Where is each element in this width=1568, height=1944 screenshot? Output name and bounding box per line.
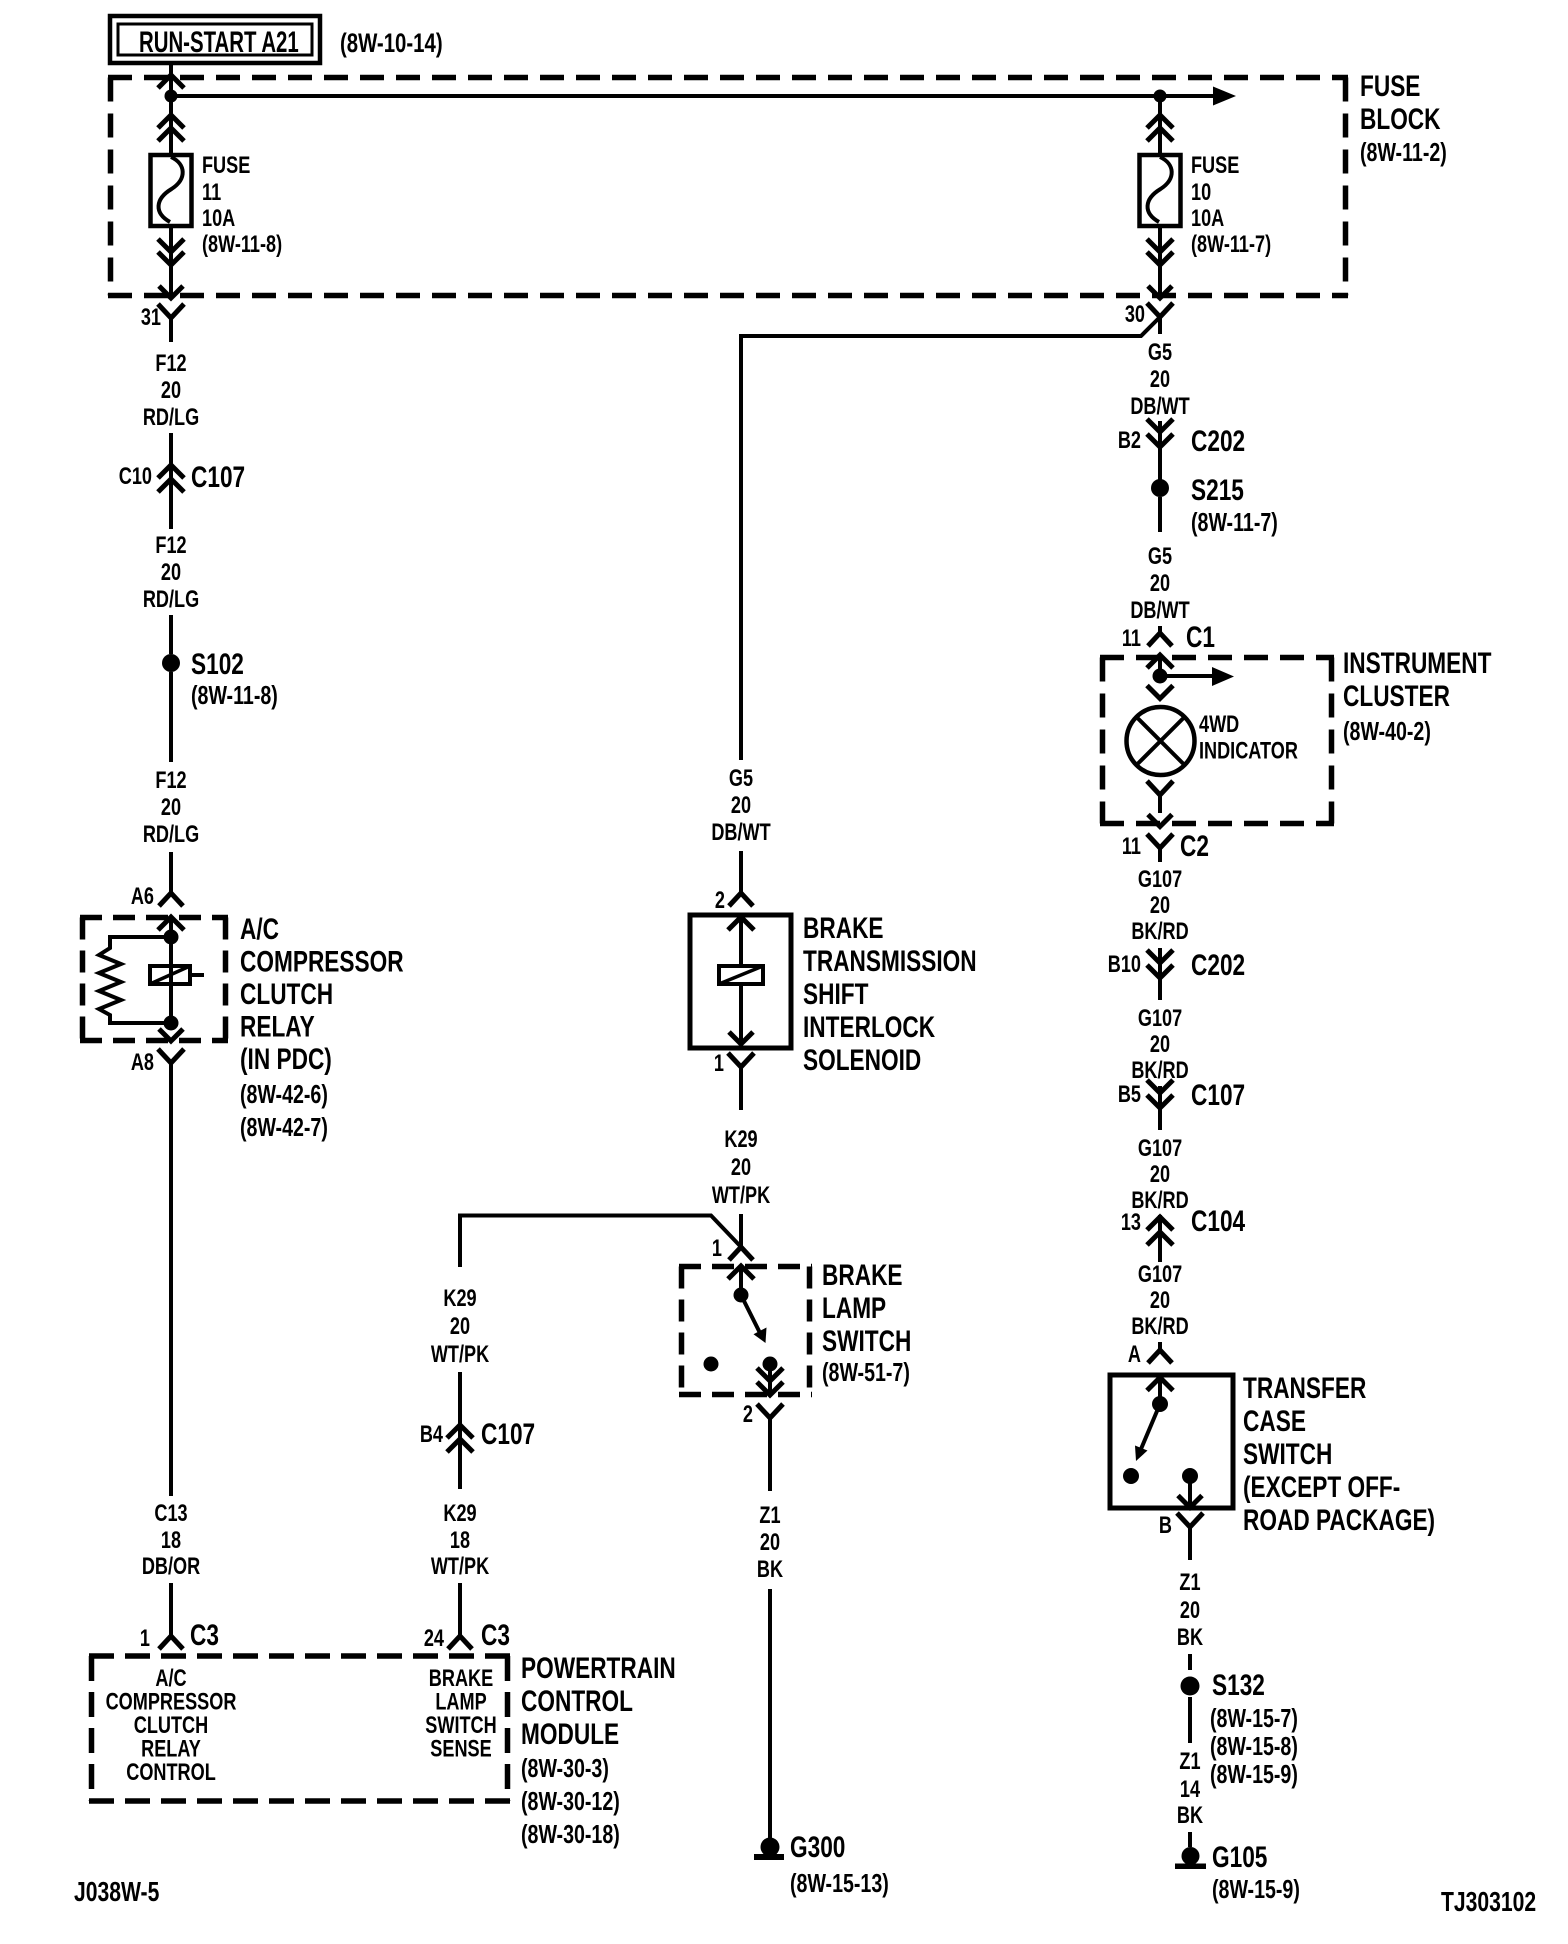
fuse F10 bottom connector [1147, 239, 1173, 252]
svg-text:11: 11 [1122, 625, 1141, 652]
svg-text:(8W-11-7): (8W-11-7) [1191, 507, 1278, 536]
connector C107 pin B4 [447, 1425, 473, 1438]
svg-text:SENSE: SENSE [430, 1735, 491, 1762]
svg-text:20: 20 [760, 1529, 780, 1556]
svg-text:20: 20 [1180, 1597, 1200, 1624]
bus wire from RUN-START A21 [169, 63, 173, 96]
connector C3 pin 1 [159, 1636, 183, 1649]
arrow out of instrument cluster [1148, 815, 1172, 827]
svg-text:WT/PK: WT/PK [431, 1553, 490, 1580]
svg-text:Z1: Z1 [1179, 1569, 1200, 1596]
svg-text:WT/PK: WT/PK [712, 1182, 771, 1209]
svg-text:C10: C10 [119, 463, 152, 490]
svg-text:S102: S102 [191, 647, 244, 681]
arrow out of fuse block [1148, 286, 1172, 298]
switch lever [741, 1295, 760, 1333]
svg-text:FUSE: FUSE [1191, 152, 1239, 179]
svg-text:20: 20 [1150, 1287, 1170, 1314]
svg-text:INTERLOCK: INTERLOCK [803, 1010, 935, 1044]
wire [1158, 948, 1162, 1000]
arrow into relay [158, 917, 184, 930]
svg-text:G107: G107 [1138, 1261, 1182, 1288]
svg-text:(8W-42-6): (8W-42-6) [240, 1079, 328, 1108]
svg-text:C107: C107 [481, 1417, 535, 1451]
ground G300 [761, 1838, 780, 1857]
fuse 10 10A [1140, 155, 1181, 226]
svg-text:Z1: Z1 [1179, 1748, 1200, 1775]
svg-text:B4: B4 [420, 1421, 443, 1448]
svg-text:C107: C107 [191, 460, 245, 494]
connector 30 of fuse block [1147, 303, 1173, 317]
svg-text:(8W-40-2): (8W-40-2) [1343, 716, 1431, 745]
svg-text:SOLENOID: SOLENOID [803, 1043, 921, 1077]
wire [1158, 1086, 1162, 1130]
relay node bottom [164, 1016, 179, 1031]
fuse F11 top connector [158, 115, 184, 128]
svg-text:14: 14 [1180, 1776, 1200, 1803]
connector C3 pin 24 [448, 1636, 472, 1649]
svg-text:WT/PK: WT/PK [431, 1341, 490, 1368]
svg-text:2: 2 [715, 887, 725, 914]
connector C2 pin 11 [1147, 834, 1173, 848]
svg-text:(8W-11-8): (8W-11-8) [191, 680, 278, 709]
svg-text:K29: K29 [724, 1126, 757, 1153]
wire [169, 672, 173, 762]
svg-text:20: 20 [1150, 366, 1170, 393]
svg-text:DB/WT: DB/WT [1130, 393, 1189, 420]
fuse F11 bottom connector [158, 239, 184, 252]
powertrain control module dashed box [89, 1656, 510, 1801]
svg-text:RD/LG: RD/LG [143, 586, 199, 613]
arrow out of brake lamp switch [768, 1364, 772, 1395]
svg-text:TJ303102: TJ303102 [1441, 1887, 1536, 1917]
solenoid coil [719, 966, 763, 984]
wire [169, 226, 173, 298]
wire [1158, 226, 1162, 298]
wire [1188, 1832, 1192, 1847]
svg-text:TRANSFER: TRANSFER [1243, 1371, 1366, 1405]
svg-text:(8W-15-13): (8W-15-13) [790, 1868, 889, 1897]
svg-text:20: 20 [731, 1154, 751, 1181]
svg-text:B2: B2 [1118, 427, 1141, 454]
svg-text:INDICATOR: INDICATOR [1199, 737, 1298, 764]
wire [169, 433, 173, 529]
connector pin A8 [158, 1049, 184, 1063]
svg-text:20: 20 [1150, 570, 1170, 597]
svg-text:G107: G107 [1138, 1135, 1182, 1162]
svg-text:(8W-30-3): (8W-30-3) [521, 1753, 609, 1782]
svg-text:13: 13 [1121, 1209, 1141, 1236]
wire G5 from connector 30 [741, 317, 1160, 760]
svg-text:RD/LG: RD/LG [143, 821, 199, 848]
A/C compressor clutch relay dashed box [80, 918, 228, 1041]
svg-text:18: 18 [450, 1527, 470, 1554]
wire [169, 615, 173, 654]
svg-text:BRAKE: BRAKE [822, 1258, 903, 1292]
svg-text:11: 11 [1122, 833, 1141, 860]
arrow out of relay [159, 1029, 183, 1041]
node splice on bus left [165, 90, 178, 103]
svg-text:K29: K29 [443, 1500, 476, 1527]
wire [169, 852, 173, 893]
svg-text:COMPRESSOR: COMPRESSOR [240, 944, 404, 978]
connector pin 2 [729, 893, 753, 906]
wire [1158, 1215, 1162, 1262]
node in instrument cluster [1153, 669, 1168, 684]
svg-text:B5: B5 [1118, 1081, 1141, 1108]
svg-text:20: 20 [1150, 1161, 1170, 1188]
instrument cluster dashed box [1100, 658, 1334, 824]
transfer case switch box [1110, 1375, 1233, 1508]
svg-text:C107: C107 [1191, 1078, 1245, 1112]
connector C202 pin B10 [1147, 950, 1173, 963]
svg-text:(8W-30-12): (8W-30-12) [521, 1786, 620, 1815]
wire [169, 96, 173, 156]
svg-text:20: 20 [1150, 1031, 1170, 1058]
svg-text:RELAY: RELAY [240, 1009, 315, 1043]
fuse 11 10A [151, 155, 192, 226]
wire [1158, 421, 1162, 484]
svg-text:F12: F12 [155, 767, 186, 794]
svg-text:CONTROL: CONTROL [126, 1759, 216, 1786]
svg-text:S132: S132 [1212, 1668, 1265, 1702]
svg-text:S215: S215 [1191, 473, 1244, 507]
connector inside cluster [1147, 781, 1173, 795]
svg-text:C13: C13 [154, 1500, 187, 1527]
svg-text:G107: G107 [1138, 1005, 1182, 1032]
fuse F10 top connector [1147, 115, 1173, 128]
svg-text:BK: BK [1177, 1802, 1204, 1829]
svg-text:10: 10 [1191, 179, 1211, 206]
wire [768, 1589, 772, 1838]
svg-text:BK: BK [1177, 1624, 1204, 1651]
svg-text:B10: B10 [1108, 951, 1141, 978]
svg-text:C2: C2 [1180, 829, 1209, 863]
connector C107 pin B5 [1147, 1080, 1173, 1093]
svg-text:G5: G5 [729, 765, 753, 792]
svg-text:TRANSMISSION: TRANSMISSION [803, 944, 977, 978]
svg-text:G5: G5 [1148, 543, 1172, 570]
svg-text:18: 18 [161, 1527, 181, 1554]
resistor of relay [99, 937, 171, 1023]
relay node top [164, 930, 179, 945]
svg-text:Z1: Z1 [759, 1502, 780, 1529]
svg-text:BRAKE: BRAKE [803, 911, 884, 945]
wire [1158, 96, 1162, 156]
brake transmission shift interlock solenoid box [690, 915, 791, 1048]
svg-text:11: 11 [202, 179, 221, 206]
switch contact node left [704, 1357, 719, 1372]
fuse block dashed box [108, 78, 1348, 296]
wire [1158, 626, 1162, 633]
switch pole node [1152, 1396, 1168, 1412]
svg-text:F12: F12 [155, 532, 186, 559]
node splice on bus right [1154, 90, 1167, 103]
svg-text:30: 30 [1125, 301, 1145, 328]
svg-text:(8W-10-14): (8W-10-14) [340, 28, 443, 58]
splice S102 [162, 654, 180, 672]
connector arrow into fuse block [158, 75, 184, 88]
svg-text:(8W-15-8): (8W-15-8) [1210, 1731, 1298, 1760]
splice S215 [1151, 479, 1169, 497]
switch contact node left [1123, 1468, 1139, 1484]
svg-text:G107: G107 [1138, 866, 1182, 893]
wire [458, 1372, 462, 1453]
svg-text:G5: G5 [1148, 339, 1172, 366]
wire [1158, 1342, 1162, 1350]
svg-text:(8W-15-9): (8W-15-9) [1212, 1874, 1300, 1903]
svg-text:20: 20 [1150, 892, 1170, 919]
svg-text:(8W-15-7): (8W-15-7) [1210, 1703, 1298, 1732]
ground G105 [1182, 1847, 1200, 1865]
svg-text:(EXCEPT OFF-: (EXCEPT OFF- [1243, 1470, 1400, 1504]
svg-text:RD/LG: RD/LG [143, 404, 199, 431]
connector pin B [1177, 1513, 1203, 1527]
wire [739, 851, 743, 893]
svg-text:DB/WT: DB/WT [711, 819, 770, 846]
svg-text:SHIFT: SHIFT [803, 977, 868, 1011]
relay coil K-AC [169, 937, 173, 1023]
svg-text:SWITCH: SWITCH [1243, 1437, 1332, 1471]
switch contact node right [1182, 1468, 1198, 1484]
switch contact node right [763, 1357, 778, 1372]
wire [739, 984, 743, 1044]
splice S132 [1181, 1677, 1200, 1696]
power feed box RUN-START A21 [110, 16, 320, 63]
svg-text:G300: G300 [790, 1830, 845, 1864]
svg-text:(8W-11-8): (8W-11-8) [202, 231, 282, 258]
svg-text:C3: C3 [190, 1618, 219, 1652]
svg-text:(IN PDC): (IN PDC) [240, 1042, 332, 1076]
connector pin 1 [728, 1053, 754, 1067]
svg-text:FUSE: FUSE [202, 152, 250, 179]
svg-text:20: 20 [161, 794, 181, 821]
svg-text:LAMP: LAMP [822, 1291, 886, 1325]
svg-text:F12: F12 [155, 350, 186, 377]
svg-text:10A: 10A [1191, 205, 1224, 232]
svg-text:A: A [1128, 1341, 1141, 1368]
connector pin 2 [757, 1404, 783, 1418]
svg-text:(8W-11-7): (8W-11-7) [1191, 231, 1271, 258]
svg-text:POWERTRAIN: POWERTRAIN [521, 1651, 676, 1685]
svg-text:C104: C104 [1191, 1204, 1245, 1238]
svg-text:CLUSTER: CLUSTER [1343, 679, 1450, 713]
switch pole node [734, 1288, 749, 1303]
connector C107 pin C10 [158, 465, 184, 478]
svg-text:CONTROL: CONTROL [521, 1684, 633, 1718]
svg-text:K29: K29 [443, 1285, 476, 1312]
svg-text:A/C: A/C [240, 912, 279, 946]
svg-text:10A: 10A [202, 205, 235, 232]
arrow into transfer case switch [1147, 1378, 1173, 1391]
svg-text:CASE: CASE [1243, 1404, 1306, 1438]
svg-text:20: 20 [161, 377, 181, 404]
connector C202 pin B2 [1147, 419, 1173, 432]
svg-text:A8: A8 [131, 1049, 154, 1076]
svg-text:SWITCH: SWITCH [822, 1324, 911, 1358]
svg-text:(8W-42-7): (8W-42-7) [240, 1112, 328, 1141]
svg-text:20: 20 [161, 559, 181, 586]
wire [1188, 1654, 1192, 1670]
svg-text:(8W-51-7): (8W-51-7) [822, 1357, 910, 1386]
svg-text:C1: C1 [1186, 620, 1215, 654]
svg-text:B: B [1159, 1512, 1172, 1539]
connector pin 1 of brake lamp switch [729, 1247, 753, 1260]
svg-text:RUN-START A21: RUN-START A21 [139, 26, 299, 59]
connector C1 pin 11 [1148, 633, 1172, 646]
connector C104 pin 13 [1147, 1217, 1173, 1230]
svg-text:C202: C202 [1191, 424, 1245, 458]
svg-text:ROAD PACKAGE): ROAD PACKAGE) [1243, 1503, 1435, 1537]
switch lever [1141, 1404, 1160, 1449]
indicator lamp 4WD [1127, 707, 1195, 775]
wire K29 branch to PCM [460, 1216, 743, 1268]
arrow out of transfer case switch [1188, 1476, 1192, 1508]
wire [458, 1583, 462, 1636]
svg-text:DB/OR: DB/OR [142, 1553, 200, 1580]
arrow into brake lamp switch [728, 1266, 754, 1279]
svg-text:C3: C3 [481, 1618, 510, 1652]
svg-text:BK: BK [757, 1556, 784, 1583]
svg-text:20: 20 [731, 792, 751, 819]
svg-text:(8W-15-9): (8W-15-9) [1210, 1759, 1298, 1788]
wire [739, 1214, 743, 1247]
bus continuation arrow [1160, 94, 1214, 98]
connector pin A6 [159, 893, 183, 906]
svg-text:(8W-11-2): (8W-11-2) [1360, 137, 1447, 166]
svg-text:BLOCK: BLOCK [1360, 102, 1441, 136]
arrow out of fuse block [159, 286, 183, 298]
arrow to indicator lamp [1147, 686, 1173, 699]
bus wire horizontal [171, 94, 1160, 98]
svg-text:24: 24 [424, 1625, 444, 1652]
svg-text:1: 1 [714, 1050, 724, 1077]
connector pin A [1148, 1350, 1172, 1363]
svg-text:(8W-30-18): (8W-30-18) [521, 1819, 620, 1848]
wire [458, 1453, 462, 1489]
svg-text:BK/RD: BK/RD [1131, 1313, 1188, 1340]
wire [1188, 1697, 1192, 1743]
svg-text:1: 1 [140, 1625, 150, 1652]
arrow into solenoid [728, 917, 754, 930]
svg-text:J038W-5: J038W-5 [74, 1877, 159, 1907]
svg-text:DB/WT: DB/WT [1130, 597, 1189, 624]
wire [169, 1583, 173, 1636]
svg-text:G105: G105 [1212, 1840, 1268, 1874]
svg-text:4WD: 4WD [1199, 711, 1239, 738]
svg-text:1: 1 [712, 1235, 722, 1262]
svg-text:FUSE: FUSE [1360, 69, 1420, 103]
svg-text:CLUTCH: CLUTCH [240, 977, 333, 1011]
arrow into instrument cluster [1147, 655, 1173, 668]
svg-text:2: 2 [743, 1401, 753, 1428]
svg-text:C202: C202 [1191, 948, 1245, 982]
wire [1158, 497, 1162, 532]
brake lamp switch dashed box [679, 1267, 812, 1395]
svg-text:INSTRUMENT: INSTRUMENT [1343, 646, 1491, 680]
svg-text:BK/RD: BK/RD [1131, 918, 1188, 945]
svg-text:20: 20 [450, 1313, 470, 1340]
svg-text:A6: A6 [131, 883, 154, 910]
svg-text:MODULE: MODULE [521, 1717, 619, 1751]
arrow out of solenoid [729, 1032, 753, 1044]
wire [169, 1085, 173, 1496]
connector 31 of fuse block [158, 304, 184, 318]
instrument cluster feed arrow [1160, 674, 1213, 678]
